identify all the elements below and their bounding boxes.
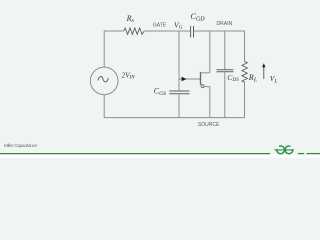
svg-text:Miller Capacitance: Miller Capacitance (4, 143, 38, 149)
transistor source connect (204, 86, 210, 88)
footer green rule right (298, 153, 305, 155)
wire bottom rail (104, 117, 244, 119)
wire top rail right segment (194, 30, 245, 32)
capacitor CGD (190, 26, 192, 38)
wire CDS branch lower (224, 72, 226, 118)
gate arrowhead (182, 77, 187, 82)
svg-text:GATE: GATE (153, 23, 167, 29)
wire VG node vertical upper (178, 31, 180, 91)
footer lower white strip (0, 154, 320, 158)
wire CDS branch upper (224, 31, 226, 70)
source 2VIN circle (90, 67, 118, 95)
wire RL branch lower (244, 83, 246, 118)
wire VG node vertical lower (178, 94, 180, 118)
wire gate lead with arrow (179, 78, 200, 80)
footer green rule right 2 (306, 153, 320, 155)
transistor source bubble (201, 85, 204, 88)
wire drain vertical (209, 31, 211, 73)
source sine symbol (98, 76, 108, 81)
wire source vertical (209, 87, 211, 118)
transistor gate bar (200, 72, 202, 85)
svg-text:SOURCE: SOURCE (198, 122, 220, 128)
resistor R_s (124, 28, 145, 34)
svg-text:DRAIN: DRAIN (217, 21, 233, 27)
capacitor CDS (217, 69, 234, 71)
footer green rule left (0, 153, 270, 155)
wire top rail left segment (104, 30, 123, 32)
capacitor CGS (169, 90, 189, 92)
wire left branch top (103, 31, 105, 68)
arrow VL (263, 66, 265, 79)
transistor drain connect (201, 72, 210, 74)
wire left branch bottom (103, 95, 105, 118)
GeeksforGeeks logo (275, 146, 294, 154)
resistor RL (242, 61, 247, 83)
wire top rail mid segment (144, 30, 190, 32)
wire RL branch upper (244, 31, 246, 62)
